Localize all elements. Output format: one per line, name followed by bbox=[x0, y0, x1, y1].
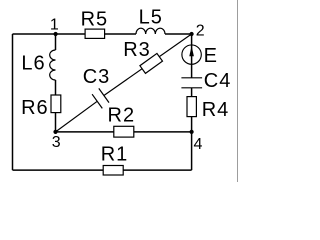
resistor R6 bbox=[51, 95, 61, 113]
wire top (node1 to node2 through R5, L5) bbox=[13, 33, 192, 35]
wire right lower (node4 down to bottom wire) bbox=[191, 132, 193, 170]
svg-text:R5: R5 bbox=[81, 8, 109, 30]
node 2 junction bbox=[190, 32, 194, 36]
wire left side bbox=[12, 34, 14, 170]
svg-text:2: 2 bbox=[196, 22, 206, 39]
svg-text:R4: R4 bbox=[202, 99, 230, 121]
svg-text:C3: C3 bbox=[83, 66, 111, 88]
node 1 junction bbox=[54, 32, 58, 36]
wire middle (node3 to node4 through R2) bbox=[56, 131, 192, 133]
inductor L5 bbox=[136, 28, 165, 34]
wire left branch (node1 to node3 through L6, R6) bbox=[55, 34, 57, 132]
node 3 junction bbox=[53, 130, 57, 134]
svg-text:R1: R1 bbox=[101, 144, 129, 166]
svg-text:L5: L5 bbox=[139, 6, 163, 28]
wire right branch (node2 to node4 through E, C4, R4) bbox=[191, 34, 193, 132]
right page border bbox=[237, 0, 239, 182]
capacitor C4 bbox=[181, 78, 202, 88]
inductor L6 bbox=[50, 50, 56, 80]
svg-text:C4: C4 bbox=[204, 70, 232, 92]
svg-text:E: E bbox=[204, 45, 218, 67]
resistor R1 bbox=[103, 166, 123, 176]
node 4 junction bbox=[190, 130, 194, 134]
svg-text:1: 1 bbox=[50, 17, 60, 34]
wire diagonal (node3 to node2 through C3, R3) bbox=[56, 34, 192, 132]
resistor R3 bbox=[140, 53, 163, 73]
svg-text:4: 4 bbox=[194, 136, 204, 153]
resistor R5 bbox=[85, 29, 105, 38]
source E bbox=[182, 45, 201, 64]
resistor R4 bbox=[187, 97, 196, 117]
capacitor C3 bbox=[92, 88, 109, 108]
svg-text:R2: R2 bbox=[108, 105, 136, 127]
svg-text:R6: R6 bbox=[21, 97, 49, 119]
resistor R2 bbox=[114, 126, 134, 137]
svg-text:R3: R3 bbox=[123, 39, 151, 61]
wire bottom (through R1) bbox=[13, 169, 192, 171]
svg-text:L6: L6 bbox=[21, 52, 45, 74]
svg-text:3: 3 bbox=[52, 134, 62, 151]
